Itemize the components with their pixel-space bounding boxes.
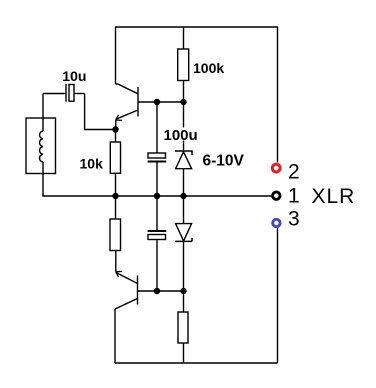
wire top rail to resistor 100k bbox=[183, 27, 185, 49]
svg-text:6-10V: 6-10V bbox=[203, 152, 245, 169]
wire emitter Q1 to node bbox=[115, 120, 117, 130]
node base Q1 / cap C2 bbox=[154, 99, 160, 105]
wire collector Q1 to top rail bbox=[115, 27, 117, 84]
transistor Q1 bbox=[116, 84, 139, 130]
resistor 100k bbox=[178, 49, 189, 81]
resistor R2 bbox=[110, 219, 121, 251]
wire base Q2 row bbox=[138, 290, 184, 292]
wire mid rail to capacitor C3 bbox=[156, 196, 158, 231]
node mid rail / resistors bbox=[112, 193, 118, 199]
wire mid rail to zener D2 bbox=[183, 196, 185, 224]
wire capsule row to C1 left plate bbox=[43, 93, 66, 95]
svg-text:10k: 10k bbox=[80, 156, 104, 172]
resistor R3 bbox=[178, 312, 188, 343]
wire C3 to base Q2 node bbox=[156, 240, 158, 292]
wire mid rail bbox=[42, 195, 271, 197]
D1 triangle bbox=[176, 152, 192, 169]
D2 triangle bbox=[176, 224, 192, 241]
XLR pin 2 terminal bbox=[272, 164, 280, 172]
C1 left plate bbox=[65, 84, 67, 102]
wire base Q1 row bbox=[138, 101, 184, 103]
wire node to 10k bbox=[115, 130, 117, 143]
capacitor C1 10u bbox=[43, 84, 85, 102]
Q2 collector lead bbox=[115, 299, 138, 310]
transistor Q2 bbox=[115, 271, 138, 363]
wire base Q1 node to capacitor C2 bbox=[156, 102, 158, 153]
C1 right plate (box) bbox=[69, 85, 74, 102]
D1 cathode bar bbox=[175, 151, 192, 155]
capacitor C2 100u bbox=[148, 153, 167, 196]
wire capsule to mid rail bbox=[42, 162, 44, 196]
node emitter Q1 / R 10k bbox=[112, 126, 118, 132]
wire XLR pin 3 to bottom rail bbox=[277, 228, 279, 364]
wire R2 to emitter Q2 bbox=[115, 251, 117, 272]
wire 10k to mid rail bbox=[115, 173, 117, 196]
wire C1 right plate out bbox=[74, 93, 85, 95]
node base Q2 / C3 bbox=[154, 288, 160, 294]
Q1 base bar bbox=[137, 87, 139, 117]
Q1 emitter lead bbox=[117, 110, 139, 119]
wire top rail bbox=[115, 26, 278, 28]
Q1 collector lead bbox=[116, 84, 139, 94]
Q2 emitter arrow bbox=[116, 271, 123, 277]
node mid rail / caps bbox=[154, 193, 160, 199]
XLR pin 3 terminal bbox=[273, 219, 280, 226]
C3 bottom plate (box) bbox=[148, 235, 166, 240]
Q2 base bar bbox=[137, 276, 139, 305]
inductor coil bbox=[40, 131, 43, 162]
svg-text:10u: 10u bbox=[62, 68, 86, 84]
capacitor C3 bbox=[148, 231, 167, 291]
svg-text:3: 3 bbox=[288, 208, 300, 231]
microphone capsule box bbox=[26, 118, 56, 174]
svg-text:1: 1 bbox=[288, 185, 300, 208]
C3 top plate bbox=[148, 230, 167, 232]
C2 bottom plate bbox=[148, 161, 167, 163]
resistor R 10k bbox=[110, 142, 120, 173]
svg-text:XLR: XLR bbox=[312, 185, 356, 208]
wire top rail to XLR pin 2 bbox=[277, 27, 279, 163]
svg-text:100k: 100k bbox=[193, 60, 224, 76]
zener diode D1 bbox=[175, 151, 192, 196]
wire capsule to C1 bbox=[42, 94, 44, 132]
zener diode D2 bbox=[175, 224, 192, 291]
node base Q1 / 100k / D1 bbox=[180, 99, 186, 105]
Q2 emitter lead bbox=[117, 273, 138, 284]
wire collector Q2 to bottom rail bbox=[114, 309, 116, 363]
wire C2 to mid rail bbox=[156, 162, 158, 197]
wire node to resistor R3 bbox=[183, 291, 185, 312]
wire mid rail to resistor R2 bbox=[115, 196, 117, 219]
wire D2 cathode to base Q2 node bbox=[183, 241, 185, 291]
wire C1 to emitter Q1 bbox=[85, 94, 116, 130]
D2 cathode bar bbox=[175, 238, 192, 241]
Q1 emitter arrow bbox=[116, 115, 123, 121]
wire R3 to bottom rail bbox=[183, 343, 185, 363]
node base Q2 / D2 / R3 bbox=[180, 288, 186, 294]
wire D1 anode to mid rail bbox=[183, 169, 185, 196]
XLR pin 1 terminal bbox=[273, 192, 280, 199]
wire bottom rail bbox=[115, 362, 278, 364]
svg-text:2: 2 bbox=[288, 161, 300, 184]
wire 100k bottom to zener D1 bbox=[183, 81, 185, 152]
node mid rail / zeners bbox=[180, 193, 186, 199]
C2 top plate (box) bbox=[148, 153, 166, 158]
svg-text:100u: 100u bbox=[164, 127, 198, 144]
label 100u background bbox=[163, 128, 198, 141]
